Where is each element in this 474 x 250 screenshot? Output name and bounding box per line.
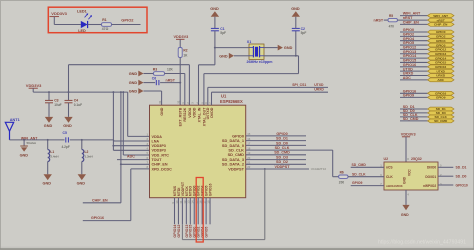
wire VDD3V3 to R2 (179, 39, 181, 47)
svg-text:12K: 12K (167, 68, 174, 72)
wire U1 bottom pin 15 (197, 198, 199, 225)
wire VDD3V3 to LED1 anode (54, 17, 81, 25)
svg-text:CHIP_EN: CHIP_EN (434, 23, 448, 27)
ground (above C2) (291, 7, 300, 17)
wire VDDPST route (bottom) (182, 169, 264, 240)
svg-text:ADC: ADC (437, 78, 444, 82)
ground (under C3) (44, 117, 53, 128)
wire U1 bottom pin 9 (174, 198, 176, 225)
wire LED1 cathode to R1 (88, 24, 102, 26)
svg-text:CHIP_EN: CHIP_EN (152, 163, 168, 167)
wire VDD_RTC feed (123, 92, 149, 155)
svg-text:VDD3P3: VDD3P3 (152, 144, 166, 148)
svg-text:GPIO12: GPIO12 (177, 225, 181, 238)
wire U1 bottom pin 16 (201, 198, 203, 225)
power VDD3V3 (LED branch) (50, 11, 68, 16)
wire to port GPIO13 (400, 53, 428, 55)
wire U1 SD_CLK stub (246, 150, 333, 177)
U1 bottom pin numbers (171, 200, 211, 204)
svg-text:GND: GND (284, 46, 293, 50)
port UTXD (428, 69, 455, 73)
svg-text:SD_CMD: SD_CMD (274, 151, 290, 155)
svg-text:GPIO9: GPIO9 (352, 181, 362, 185)
svg-text:GPIO16: GPIO16 (208, 184, 212, 197)
U1 top pin names (160, 107, 214, 127)
resistor R6 200 (339, 171, 348, 185)
wire R2 to EXT_RSTB (179, 58, 181, 83)
svg-text:GND: GND (43, 182, 52, 186)
svg-text:ADC: ADC (403, 76, 411, 80)
wire U1 SD_CMD stub (246, 154, 306, 156)
wire U1 SD_D0 stub (246, 144, 306, 146)
wire U1 SD_D3 stub (246, 159, 306, 161)
node XTAL_IN junction (214, 47, 216, 49)
svg-text:htlps://blog.csdn.net/weixin_4: htlps://blog.csdn.net/weixin_44793491 (378, 239, 466, 245)
svg-text:GPIO9: GPIO9 (436, 96, 446, 100)
port ADC (428, 78, 455, 82)
svg-text:VDD3V3: VDD3V3 (51, 11, 67, 16)
transistor U2 25Q32 body (384, 157, 439, 190)
svg-text:ESP8266EX: ESP8266EX (220, 99, 243, 104)
node VDDPST junction (264, 168, 266, 170)
svg-text:1K: 1K (183, 53, 188, 57)
U1 bottom pin names (173, 181, 213, 196)
wire SD_CMD to nCS (351, 166, 384, 168)
svg-text:R5: R5 (389, 14, 393, 18)
svg-text:R1: R1 (102, 18, 106, 22)
wire VDD3V3 rail (33, 91, 128, 93)
wire nWP to GPIO10 (438, 184, 453, 186)
ground (under L2) (77, 174, 86, 185)
node C2 junction (295, 55, 297, 57)
wire GPIO9 to nHOLD (351, 185, 384, 187)
wire U1 bottom pin 13 (189, 198, 191, 225)
wire VDD3V3 to VCC (405, 137, 407, 162)
svg-text:C4: C4 (74, 98, 78, 102)
capacitor C1 5pF (211, 27, 226, 35)
U2 pin names (386, 166, 436, 188)
wire to port WIFI_ANT (400, 15, 428, 17)
wire to port SD_D1 (400, 108, 428, 110)
svg-text:nRST: nRST (403, 16, 413, 20)
wire GND to C1 (214, 17, 216, 29)
inductor L1 2.4nH (48, 140, 59, 174)
wire U1 VDDPST stub (246, 168, 309, 170)
port GPIO4 (428, 39, 455, 43)
wire to port GPIO4 (400, 40, 428, 42)
svg-text:GND: GND (210, 7, 219, 11)
ground (under U2) (401, 205, 410, 217)
svg-text:GND: GND (129, 90, 138, 94)
wire to port SD_CLK (400, 116, 428, 118)
svg-text:nRST: nRST (437, 18, 445, 22)
U1 right pin numbers (247, 132, 251, 169)
wire X1 pin2 to GND (264, 47, 278, 49)
resistor R2 1K (178, 48, 188, 58)
svg-text:200: 200 (339, 181, 345, 185)
capacitor C3 10uF (45, 92, 62, 117)
svg-text:SD_CMD: SD_CMD (434, 119, 448, 123)
wire rail riser to top bus (69, 65, 190, 92)
svg-text:25Q32: 25Q32 (411, 157, 422, 161)
svg-text:R6: R6 (340, 171, 344, 175)
node L1 tap (47, 139, 49, 141)
svg-text:DO/IO1: DO/IO1 (425, 175, 436, 179)
selection box around LED circuit (48, 7, 147, 33)
svg-text:URXD: URXD (314, 88, 324, 92)
port GPIO5 (428, 43, 455, 47)
ground (under L1) (43, 174, 52, 185)
wire U1 bottom pin 12 (185, 198, 187, 225)
wire GND to X1 pin3 (234, 55, 249, 57)
svg-text:WIFI_ANT: WIFI_ANT (403, 12, 421, 16)
wire U1 SD_D1 stub (246, 140, 306, 142)
svg-text:31: 31 (158, 100, 162, 104)
svg-text:C6: C6 (152, 77, 156, 81)
wire to port GPIO2 (400, 35, 428, 37)
svg-text:GPIO16: GPIO16 (91, 216, 104, 220)
wire URXD (212, 92, 329, 105)
ground (IC top GND pin) (129, 88, 144, 94)
wire R1 to GPIO2 (112, 24, 141, 26)
svg-text:1.3nH: 1.3nH (85, 155, 93, 159)
svg-text:VDDPST: VDDPST (228, 166, 244, 171)
wire to port GPIO16 (400, 92, 428, 94)
svg-text:VDD3V3: VDD3V3 (401, 132, 416, 136)
wire to port CHIP_EN (400, 23, 428, 25)
svg-text:GPIO0: GPIO0 (276, 132, 287, 136)
svg-text:L2: L2 (85, 150, 89, 154)
wire U1 GPIO0 stub (246, 135, 306, 137)
wire to port GPIO0 (400, 31, 428, 33)
svg-text:SD_CMD: SD_CMD (352, 163, 367, 167)
svg-text:SD_D1: SD_D1 (276, 137, 288, 141)
wire C6 to EXT_RSTB pin (160, 83, 180, 106)
wire to port GPIO5 (400, 44, 428, 46)
wire to port SD_CMD (400, 120, 428, 122)
svg-text:DI/IO0: DI/IO0 (427, 166, 436, 170)
svg-text:GND: GND (291, 7, 300, 11)
wire DI to SD_D1 (438, 166, 453, 168)
resistor R1 47R (102, 18, 112, 31)
port nRST (428, 18, 455, 22)
svg-text:VCC: VCC (408, 169, 412, 176)
svg-text:5pF: 5pF (301, 31, 307, 35)
capacitor C4 0.1uF (65, 92, 83, 117)
port WIFI_ANT (428, 14, 455, 18)
svg-text:XTAL_IN: XTAL_IN (197, 107, 201, 122)
antenna ANT1 (5, 118, 19, 140)
port SD_D0 (428, 111, 455, 115)
U2 pin numbers (380, 157, 442, 196)
svg-text:TOUT: TOUT (152, 158, 163, 162)
node C3 tap (48, 91, 50, 93)
ground (reset cap C6) (129, 80, 144, 86)
wire antenna ground branch (23, 140, 25, 146)
resistor R5 470 (388, 14, 397, 28)
port GPIO12 (428, 48, 455, 52)
wire to port UTXD (400, 70, 428, 72)
wire SD_CLK riser to R6 (333, 176, 339, 178)
port GPIO2 (428, 34, 455, 38)
svg-text:X1: X1 (247, 40, 251, 44)
wire U1 bottom pin 11 (181, 198, 183, 225)
svg-text:26MHz ±10ppm: 26MHz ±10ppm (247, 60, 273, 64)
svg-text:VDD3V3: VDD3V3 (26, 83, 42, 88)
svg-text:GPIO5: GPIO5 (205, 227, 209, 238)
wire GND to R3 (144, 73, 154, 75)
wire TOUT to ADC (117, 159, 150, 161)
U1 top pin numbers (158, 100, 212, 104)
svg-text:SD_D1: SD_D1 (456, 166, 467, 170)
port URXD (428, 74, 455, 78)
wire rail to VDDA pin (128, 92, 150, 136)
svg-text:10uF: 10uF (54, 103, 61, 107)
svg-text:47Ω: 47Ω (102, 27, 109, 31)
svg-text:CHIP_EN: CHIP_EN (92, 198, 108, 202)
port GPIO16 (428, 65, 455, 69)
wire U1 bottom pin 14 (193, 198, 195, 225)
svg-text:GND: GND (129, 72, 138, 76)
wire DO to SD_D0 (438, 175, 453, 177)
svg-text:C5: C5 (63, 131, 67, 135)
wire ANT1 to C5 (10, 139, 65, 141)
svg-text:470: 470 (389, 24, 395, 28)
wire to port GPIO16 (400, 66, 428, 68)
svg-text:GPIO2: GPIO2 (121, 18, 134, 23)
wire UTXD (208, 87, 328, 105)
svg-text:RES12K: RES12K (183, 107, 187, 121)
inductor L2 1.3nH (82, 140, 93, 174)
wire U2 GND (405, 190, 407, 205)
port GPIO0 (428, 30, 455, 34)
op-amp U1 ESP8266EX body (150, 93, 246, 197)
wire to port SD_D0 (400, 112, 428, 114)
wire to port URXD (400, 75, 428, 77)
ground (above C1) (210, 7, 219, 17)
U1 left pin names (152, 135, 173, 172)
capacitor C5 4.2pF (62, 131, 70, 149)
svg-text:LED1: LED1 (77, 10, 87, 14)
power VDD3V3 (U2) (401, 132, 416, 137)
resistor R3 12K (153, 68, 174, 76)
svg-text:SD_D2: SD_D2 (276, 160, 288, 164)
U1 right pin names (222, 133, 245, 171)
svg-text:nWP/IO2: nWP/IO2 (423, 184, 436, 188)
svg-text:GND: GND (63, 124, 72, 128)
wire C5 to LNA (70, 139, 114, 141)
ground (under C4) (63, 117, 72, 128)
U1 left pin numbers (147, 133, 149, 170)
svg-text:32: 32 (177, 100, 181, 104)
wire XTAL_IN upper line (215, 47, 249, 49)
wire GND to GND pin (144, 91, 162, 105)
svg-text:CLK: CLK (386, 175, 393, 179)
port GPIO16 (428, 91, 455, 95)
wire to port GPIO9 (400, 96, 428, 98)
wire U1 SD_D2 stub (246, 163, 306, 165)
svg-text:EXT_RSTB: EXT_RSTB (179, 107, 183, 126)
svg-text:nRST: nRST (374, 18, 384, 22)
svg-text:GPIO9: GPIO9 (403, 94, 414, 98)
ground (RES12K pulldown) (129, 71, 144, 77)
svg-text:VDDA: VDDA (152, 135, 163, 139)
svg-text:SD_CLK: SD_CLK (352, 172, 366, 176)
port CHIP_EN (428, 23, 455, 27)
svg-text:WIFI_ANT: WIFI_ANT (433, 14, 448, 18)
wire U1 bottom pin 18 (209, 198, 211, 225)
svg-text:VDD3V3: VDD3V3 (174, 35, 189, 39)
svg-text:U2: U2 (384, 157, 389, 161)
crystal X1 26MHz (247, 40, 273, 64)
svg-text:GND: GND (77, 182, 86, 186)
wire R5 to port nRST (397, 19, 427, 21)
svg-text:VDDD: VDDD (193, 107, 197, 118)
svg-text:ANT1: ANT1 (10, 118, 20, 122)
wire CHIP_EN pull-up and stub (83, 92, 150, 203)
capacitor C6 (152, 77, 159, 86)
wire U1 bottom pin 17 (205, 198, 207, 225)
svg-text:0.1uF: 0.1uF (74, 103, 82, 107)
svg-text:4.2pF: 4.2pF (62, 145, 70, 149)
port GPIO14 (428, 56, 455, 60)
wire to port ADC (400, 79, 428, 81)
svg-text:VDD3P3: VDD3P3 (152, 149, 166, 153)
svg-text:SPI_CS1: SPI_CS1 (292, 83, 306, 87)
node VDD3P3 drop (112, 91, 114, 93)
port GPIO9 (428, 96, 455, 100)
wire to port GPIO14 (400, 57, 428, 59)
wire nRST to R5 (384, 19, 388, 21)
ground (antenna) (20, 146, 29, 158)
svg-text:nRST: nRST (166, 78, 176, 82)
ground (right of X1) (278, 45, 293, 51)
svg-text:UTXD: UTXD (314, 83, 324, 87)
wire XTAL_IN pin route (199, 65, 215, 105)
wire U1 bottom pin 10 (177, 198, 179, 225)
svg-text:nHOLD/IO3: nHOLD/IO3 (386, 184, 403, 188)
svg-text:DVDD: DVDD (210, 107, 214, 118)
svg-text:LNA: LNA (152, 139, 160, 143)
port SD_CMD (428, 119, 455, 123)
svg-text:2.4nH: 2.4nH (50, 155, 58, 159)
svg-text:GND: GND (160, 107, 164, 115)
selection box around GPIO2 pin (196, 178, 203, 243)
svg-text:L1: L1 (50, 150, 54, 154)
node L2 tap (81, 139, 83, 141)
wire LNA pin (114, 140, 150, 141)
svg-text:CHIP_EN: CHIP_EN (403, 21, 419, 25)
svg-text:GND: GND (401, 213, 409, 217)
node C4 tap (68, 91, 70, 93)
svg-text:5pF: 5pF (220, 31, 226, 35)
wire to port GPIO12 (400, 48, 428, 50)
wire to port GPIO15 (400, 61, 428, 63)
wire X1 pin4 to XTAL_OUT return (204, 56, 299, 105)
wire VDDA top pin (188, 65, 190, 106)
svg-text:GND: GND (129, 81, 138, 85)
svg-text:VDD_RTC: VDD_RTC (152, 153, 170, 157)
power VDD3V3 (reset pull-up) (174, 35, 189, 39)
node antenna gnd junction (23, 139, 25, 141)
svg-text:SD_D0: SD_D0 (456, 175, 467, 179)
capacitor C2 5pF (292, 27, 307, 56)
wire C1 to XTAL_IN route (214, 31, 216, 65)
svg-text:R3: R3 (153, 68, 157, 72)
svg-text:SD_CLK: SD_CLK (275, 146, 290, 150)
svg-text:VDDPST: VDDPST (275, 165, 291, 169)
svg-text:GND: GND (219, 54, 228, 58)
svg-text:U1GB2T13: U1GB2T13 (311, 167, 327, 171)
port SD_CLK (428, 115, 455, 119)
wire GPIO16 / XPD_DCDC (83, 169, 150, 221)
svg-text:nCS: nCS (386, 166, 393, 170)
svg-text:ADC: ADC (127, 154, 135, 158)
svg-text:C3: C3 (54, 98, 58, 102)
svg-text:GPIO10: GPIO10 (456, 183, 468, 187)
svg-text:R2: R2 (183, 49, 187, 53)
wire GND to C6 (144, 82, 156, 84)
wire VDD3P3 feed (113, 92, 149, 150)
LED LED1 (77, 10, 92, 33)
svg-text:XPD_DCDC: XPD_DCDC (152, 167, 173, 171)
wire C2 to GND (295, 17, 297, 29)
svg-text:50ohm: 50ohm (27, 141, 37, 145)
port GPIO13 (428, 52, 455, 56)
port GPIO15 (428, 61, 455, 65)
svg-text:GND: GND (20, 154, 29, 158)
svg-text:VDDA: VDDA (188, 107, 192, 118)
power VDD3V3 (main rail) (26, 83, 42, 92)
svg-text:SD_D0: SD_D0 (276, 141, 288, 145)
svg-text:SD_CMD: SD_CMD (403, 117, 419, 121)
wire R6 to CLK (348, 176, 384, 178)
port SD_D1 (428, 107, 455, 111)
wire R3 to RES12K pin (165, 74, 185, 106)
svg-text:U1: U1 (221, 93, 227, 98)
ground (left of X1) (219, 53, 234, 59)
svg-text:SD_D3: SD_D3 (276, 156, 288, 160)
svg-text:GND: GND (402, 176, 406, 184)
svg-text:GND: GND (44, 124, 53, 128)
